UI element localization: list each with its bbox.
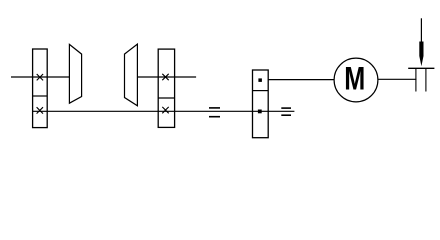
gearbox block B3 (middle housing) — [253, 70, 269, 138]
bearing block B2 (right housing) — [158, 49, 174, 127]
svg-text:M: M — [344, 60, 365, 96]
divider of block B3 — [253, 90, 269, 92]
divider of bearing block B1 — [33, 95, 48, 97]
bearing X mark (shaft I in B1) — [37, 74, 43, 80]
cone pulley P1 (left, on shaft I) — [69, 44, 81, 103]
cone pulley P2 (right, on shaft III) — [125, 44, 138, 106]
feed arrowhead — [419, 42, 423, 67]
motor M1 (circle) — [334, 58, 378, 102]
slide bar (table) — [408, 67, 434, 69]
coupling ticks C2 (on shaft II, right pair) — [281, 107, 291, 109]
feed direction line — [420, 18, 422, 43]
wire: motor shaft right segment — [378, 78, 417, 80]
coupling ticks C1 (on shaft II, left pair) — [209, 107, 220, 109]
wire: shaft III (upper right shaft) — [137, 76, 196, 78]
bearing X mark (shaft II in B2) — [162, 107, 168, 113]
wire: motor shaft left segment — [268, 79, 334, 81]
wire: shaft I (upper left input shaft) — [11, 76, 69, 78]
nut leg 1 — [415, 68, 417, 91]
bearing block B1 (left housing) — [33, 49, 48, 128]
divider of bearing block B2 — [158, 97, 174, 99]
wire: shaft II (lower shaft) — [33, 110, 295, 112]
bearing X mark (shaft II in B1) — [37, 107, 43, 113]
bearing X mark (shaft III in B2) — [162, 74, 168, 80]
dot mark (motor shaft in B3) — [258, 78, 262, 82]
nut leg 2 — [425, 68, 427, 91]
dot mark (shaft II in B3) — [258, 110, 262, 114]
